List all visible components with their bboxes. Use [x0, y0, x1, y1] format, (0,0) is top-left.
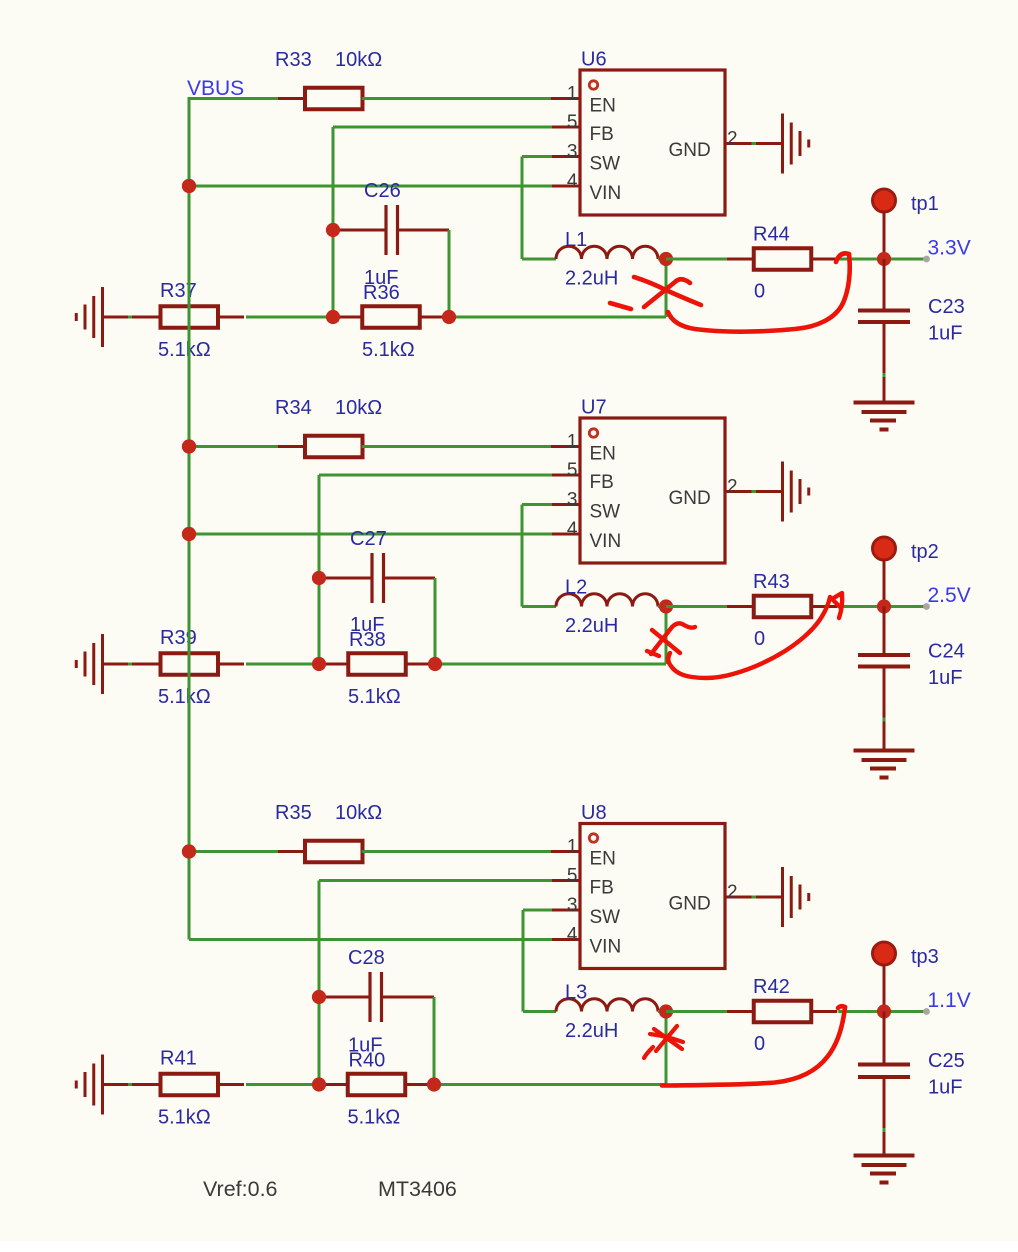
svg-text:C23: C23 [928, 296, 965, 318]
svg-text:5.1kΩ: 5.1kΩ [158, 339, 211, 361]
pin 2 GND of U6 [725, 142, 783, 145]
pin 5 FB of U6 [551, 126, 580, 129]
pin 2 wire tick [752, 896, 757, 899]
wire SW down [521, 505, 524, 607]
svg-text:R35: R35 [275, 802, 312, 824]
pin 1 invert circle of U6 [589, 81, 597, 89]
wire R41 to R40 [246, 1083, 319, 1086]
svg-text:2: 2 [727, 882, 738, 903]
svg-text:SW: SW [590, 502, 621, 523]
wire FB horizontal [319, 879, 552, 882]
wire feedback return vertical [665, 1012, 668, 1085]
svg-text:1.1V: 1.1V [928, 989, 971, 1012]
testpoint tp3 [873, 942, 896, 965]
svg-text:R40: R40 [349, 1050, 386, 1072]
wire R37 to R36 [246, 316, 333, 319]
pin 4 VIN of U8 [551, 938, 580, 941]
wire FB horizontal [333, 126, 552, 129]
wire cap right down [448, 230, 451, 317]
ground symbol left of R37 [76, 287, 136, 347]
resistor R42 0 ohm [727, 1001, 838, 1023]
junction FB node right [427, 1077, 441, 1091]
pin 1 invert circle of U7 [589, 429, 597, 437]
wire R42 to output node [838, 1010, 884, 1013]
wire tick below cap [883, 1128, 886, 1132]
svg-text:2: 2 [727, 477, 738, 498]
inductor L2 2.2uH [556, 594, 658, 607]
capacitor C24 plates [858, 655, 910, 667]
wire FB vertical [318, 475, 321, 664]
wire FB horizontal [319, 474, 552, 477]
resistor R41 5.1k to ground [134, 1074, 245, 1096]
pin 5 FB of U7 [551, 474, 580, 477]
pin 1 invert circle of U8 [589, 834, 597, 842]
capacitor C28 1uF left lead [319, 996, 370, 999]
capacitor C27 plates [372, 553, 384, 603]
svg-text:R37: R37 [160, 280, 197, 302]
ground symbol at pin 2 of U8 [783, 867, 809, 927]
annotation X mark block3 [644, 1026, 683, 1058]
svg-text:U6: U6 [581, 49, 607, 71]
svg-text:C28: C28 [348, 947, 385, 969]
capacitor C25 bottom lead [883, 1077, 886, 1156]
wire tick below cap [883, 718, 886, 722]
capacitor C24 1uF top lead [883, 607, 886, 656]
wire inductor junction to R43 [666, 605, 727, 608]
svg-text:R41: R41 [160, 1048, 197, 1070]
svg-text:R44: R44 [753, 224, 790, 246]
svg-text:3: 3 [567, 142, 578, 163]
svg-text:5.1kΩ: 5.1kΩ [362, 339, 415, 361]
capacitor C26 plates [386, 205, 398, 255]
junction on bus at VIN [182, 527, 196, 541]
wire VBUS vertical bus [188, 97, 191, 940]
svg-text:1uF: 1uF [928, 323, 962, 345]
svg-text:10kΩ: 10kΩ [335, 397, 382, 419]
svg-text:U7: U7 [581, 397, 607, 419]
pin 1 EN of U6 [551, 97, 580, 100]
junction inductor output [659, 599, 673, 613]
svg-text:R38: R38 [349, 629, 386, 651]
resistor R37 5.1k to ground [134, 306, 245, 328]
junction cap left [312, 571, 326, 585]
svg-text:C27: C27 [350, 528, 387, 550]
junction output node [877, 599, 891, 613]
junction FB node right [428, 657, 442, 671]
svg-text:5: 5 [567, 460, 578, 481]
net flag 3.3V [923, 256, 930, 263]
junction cap left [326, 223, 340, 237]
resistor R38 5.1k [321, 653, 432, 675]
capacitor C25 1uF top lead [883, 1012, 886, 1065]
svg-text:R36: R36 [363, 282, 400, 304]
svg-text:3: 3 [567, 895, 578, 916]
wire R39 to R38 [246, 663, 319, 666]
svg-text:5: 5 [567, 112, 578, 133]
resistor R40 5.1k [321, 1074, 432, 1096]
svg-text:3.3V: 3.3V [928, 237, 971, 260]
svg-text:5.1kΩ: 5.1kΩ [158, 686, 211, 708]
wire output node to net flag [884, 1010, 924, 1013]
capacitor C27 right lead [384, 577, 436, 580]
junction FB node left [312, 657, 326, 671]
svg-text:FB: FB [590, 124, 614, 145]
svg-text:FB: FB [590, 472, 614, 493]
pin 2 GND of U7 [725, 490, 783, 493]
junction on bus at EN [182, 439, 196, 453]
wire cap right down [433, 997, 436, 1085]
junction FB node left [312, 1077, 326, 1091]
svg-text:4: 4 [567, 519, 578, 540]
resistor R36 5.1k [335, 306, 446, 328]
svg-text:10kΩ: 10kΩ [335, 802, 382, 824]
net flag 1.1V [923, 1008, 930, 1015]
annotation curve block2 [668, 593, 842, 678]
inductor L1 2.2uH [556, 246, 658, 259]
svg-text:SW: SW [590, 154, 621, 175]
wire SW to inductor [522, 258, 556, 261]
wire SW down [521, 157, 524, 260]
wire inductor to output junction [658, 258, 666, 261]
svg-text:R42: R42 [753, 976, 790, 998]
annotation X mark block2 [647, 623, 695, 656]
junction on bus at EN [182, 844, 196, 858]
svg-text:2.2uH: 2.2uH [565, 1020, 618, 1042]
svg-text:L1: L1 [565, 229, 587, 251]
resistor R39 5.1k to ground [134, 653, 245, 675]
wire inductor to output junction [658, 605, 666, 608]
junction inductor output [659, 252, 673, 266]
svg-text:5.1kΩ: 5.1kΩ [348, 1107, 401, 1129]
svg-text:GND: GND [669, 488, 711, 509]
ground symbol at pin 2 of U6 [783, 114, 809, 174]
wire ground tick [128, 1083, 132, 1086]
pin 1 EN of U7 [551, 445, 580, 448]
wire feedback return vertical [665, 259, 668, 317]
pin 3 SW of U8 [551, 909, 580, 912]
pin 2 GND of U8 [725, 896, 783, 899]
ground symbol left of R39 [76, 634, 136, 694]
svg-text:1uF: 1uF [928, 667, 962, 689]
pin 4 VIN of U6 [551, 185, 580, 188]
wire FB vertical [318, 881, 321, 1085]
op-amp-style IC U7 MT3406 body [580, 418, 725, 563]
capacitor C23 bottom lead [883, 322, 886, 403]
svg-text:4: 4 [567, 171, 578, 192]
svg-text:0: 0 [754, 281, 765, 303]
wire feedback return horizontal [434, 1083, 666, 1086]
wire feedback return horizontal [449, 316, 666, 319]
junction on bus at VIN [182, 179, 196, 193]
wire cap right down [434, 578, 437, 664]
capacitor C23 plates [858, 311, 910, 323]
capacitor C24 bottom lead [883, 667, 886, 751]
inductor L3 2.2uH [556, 999, 658, 1012]
pin 5 FB of U8 [551, 879, 580, 882]
svg-text:5: 5 [567, 866, 578, 887]
svg-text:MT3406: MT3406 [378, 1177, 457, 1201]
wire FB vertical [332, 127, 335, 317]
annotation curve block1 [668, 253, 850, 331]
resistor R33 [278, 88, 389, 110]
wire R35 to pin 1 [362, 850, 552, 853]
wire output node to net flag [884, 605, 924, 608]
junction FB node left [326, 310, 340, 324]
svg-text:2: 2 [727, 129, 738, 150]
svg-text:0: 0 [754, 1033, 765, 1055]
wire VIN from bus [189, 533, 552, 536]
wire VIN from bus [189, 185, 552, 188]
pin 3 SW of U7 [551, 503, 580, 506]
svg-text:1: 1 [567, 837, 578, 858]
wire EN net from bus to R34 [189, 445, 306, 448]
annotation curve block3 [662, 1006, 845, 1085]
svg-text:SW: SW [590, 907, 621, 928]
svg-text:5.1kΩ: 5.1kΩ [348, 686, 401, 708]
capacitor C28 plates [370, 972, 382, 1022]
resistor R44 0 ohm [727, 248, 838, 270]
junction bus VIN2 [182, 527, 196, 541]
svg-text:Vref:0.6: Vref:0.6 [203, 1177, 278, 1201]
pin 1 EN of U8 [551, 850, 580, 853]
svg-text:C25: C25 [928, 1050, 965, 1072]
svg-text:VIN: VIN [590, 531, 622, 552]
svg-text:1uF: 1uF [928, 1077, 962, 1099]
pin 3 SW of U6 [551, 155, 580, 158]
pin 2 wire tick [752, 490, 757, 493]
svg-text:10kΩ: 10kΩ [335, 49, 382, 71]
junction bus VIN1 [182, 179, 196, 193]
wire output node to net flag [884, 258, 924, 261]
svg-text:EN: EN [590, 849, 616, 870]
svg-text:0: 0 [754, 628, 765, 650]
svg-text:2.5V: 2.5V [928, 584, 971, 607]
wire R33 to pin 1 [362, 97, 552, 100]
capacitor C28 right lead [382, 996, 435, 999]
junction cap left [312, 990, 326, 1004]
wire ground tick [128, 663, 132, 666]
svg-text:EN: EN [590, 444, 616, 465]
op-amp-style IC U8 MT3406 body [580, 824, 725, 969]
svg-text:L3: L3 [565, 982, 587, 1004]
wire feedback return vertical [665, 607, 668, 665]
ground symbol left of R41 [76, 1055, 136, 1115]
wire EN net from bus to R35 [189, 850, 306, 853]
wire EN net from bus to R33 [189, 97, 306, 100]
op-amp-style IC U6 MT3406 body [580, 70, 725, 215]
svg-text:C24: C24 [928, 641, 965, 663]
svg-text:R43: R43 [753, 571, 790, 593]
wire R43 to output node [838, 605, 884, 608]
junction bus EN2 [182, 439, 196, 453]
wire ground tick [128, 316, 132, 319]
svg-text:tp2: tp2 [911, 541, 939, 563]
net flag 2.5V [923, 603, 930, 610]
junction output node [877, 252, 891, 266]
svg-text:1: 1 [567, 84, 578, 105]
capacitor C26 right lead [398, 229, 450, 232]
svg-text:R39: R39 [160, 627, 197, 649]
svg-text:C26: C26 [364, 180, 401, 202]
svg-text:tp3: tp3 [911, 946, 939, 968]
wire R34 to pin 1 [362, 445, 552, 448]
svg-text:VIN: VIN [590, 183, 622, 204]
wire inductor junction to R42 [666, 1010, 727, 1013]
capacitor C26 1uF left lead [333, 229, 386, 232]
svg-text:GND: GND [669, 894, 711, 915]
wire R44 to output node [838, 258, 884, 261]
earth ground below C24 [854, 751, 915, 778]
svg-text:2.2uH: 2.2uH [565, 615, 618, 637]
wire inductor junction to R44 [666, 258, 727, 261]
svg-text:2.2uH: 2.2uH [565, 268, 618, 290]
junction output node [877, 1004, 891, 1018]
svg-text:VIN: VIN [590, 937, 622, 958]
earth ground below C23 [854, 403, 915, 430]
svg-text:4: 4 [567, 925, 578, 946]
testpoint tp2 [873, 537, 896, 560]
ground symbol at pin 2 of U7 [783, 462, 809, 522]
resistor R35 [278, 841, 389, 863]
svg-text:tp1: tp1 [911, 193, 939, 215]
svg-text:GND: GND [669, 140, 711, 161]
svg-text:L2: L2 [565, 577, 587, 599]
svg-text:R34: R34 [275, 397, 312, 419]
svg-text:EN: EN [590, 96, 616, 117]
resistor R43 0 ohm [727, 596, 838, 618]
junction bus EN3 [182, 844, 196, 858]
svg-text:R33: R33 [275, 49, 312, 71]
wire inductor to output junction [658, 1010, 666, 1013]
wire SW to inductor [523, 1010, 556, 1013]
wire tick below cap [883, 373, 886, 377]
junction inductor output [659, 1004, 673, 1018]
pin 4 VIN of U7 [551, 533, 580, 536]
wire SW down [522, 910, 525, 1012]
earth ground below C25 [854, 1156, 915, 1183]
testpoint tp1 [873, 189, 896, 212]
resistor R34 [278, 436, 389, 458]
svg-text:5.1kΩ: 5.1kΩ [158, 1107, 211, 1129]
svg-text:1: 1 [567, 432, 578, 453]
svg-text:FB: FB [590, 878, 614, 899]
pin 2 wire tick [752, 142, 757, 145]
wire VIN from bus [189, 938, 552, 941]
svg-text:3: 3 [567, 490, 578, 511]
annotation X mark block1 [610, 277, 701, 309]
wire SW to inductor [522, 605, 556, 608]
junction FB node right [442, 310, 456, 324]
capacitor C23 1uF top lead [883, 259, 886, 311]
capacitor C27 1uF left lead [319, 577, 372, 580]
white strip at bottom edge [0, 1241, 1018, 1252]
svg-text:U8: U8 [581, 802, 607, 824]
wire feedback return horizontal [435, 663, 666, 666]
svg-text:VBUS: VBUS [187, 77, 244, 100]
capacitor C25 plates [858, 1065, 910, 1078]
